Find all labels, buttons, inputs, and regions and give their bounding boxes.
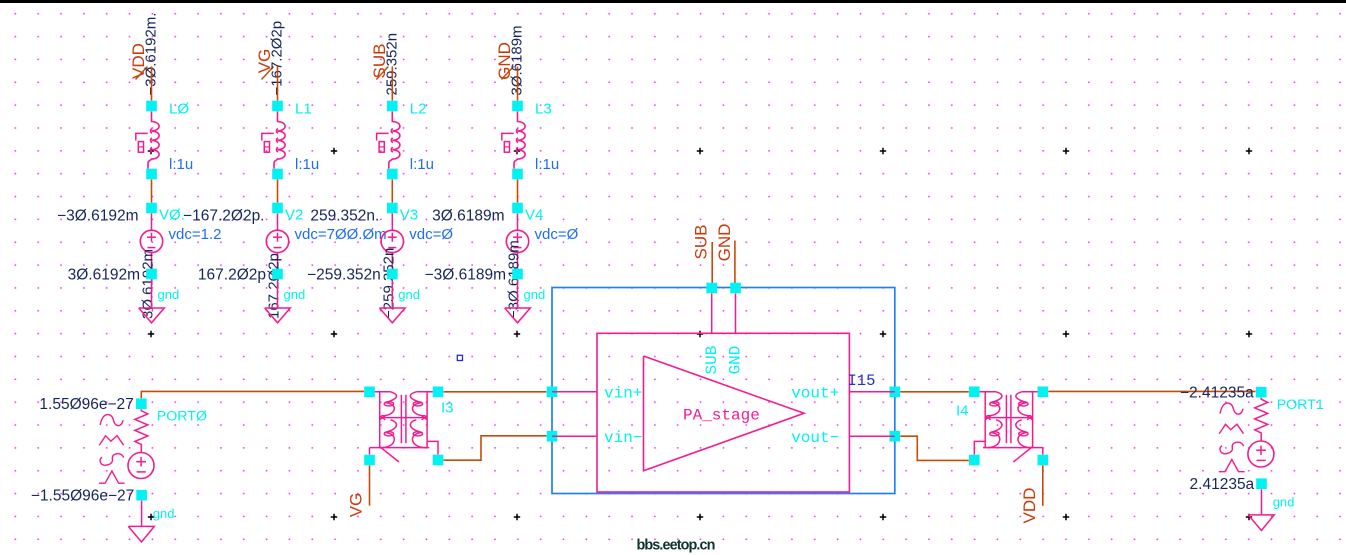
svg-text:gnd: gnd [1273, 495, 1295, 510]
inductor L3 value l:1u [535, 156, 559, 173]
svg-text:VDD: VDD [1020, 488, 1039, 524]
watermark bbs.eetop.cn [637, 538, 715, 554]
svg-text:vout+: vout+ [791, 385, 839, 403]
pin square SUB (box top) [706, 283, 717, 294]
net label SUB [370, 44, 389, 80]
pin square L1 top [272, 101, 283, 112]
svg-text:vdc=Ø: vdc=Ø [535, 226, 579, 243]
svg-text:vout−: vout− [791, 429, 839, 447]
net label GND [495, 42, 514, 80]
wire V2 to gnd [277, 280, 279, 309]
pin square I3 top-left [364, 387, 375, 398]
pin square V2 minus [272, 269, 283, 280]
inductor L3 body symbol [502, 133, 514, 152]
svg-text:l:1u: l:1u [535, 156, 559, 173]
svg-text:I4: I4 [956, 403, 969, 420]
wire I3 to vin- pin [444, 436, 547, 460]
current annotation 3Ø.6189m (rotated, net GND) [509, 25, 526, 95]
value annotation 3Ø.6189m [432, 208, 504, 225]
pin square V4 plus [512, 203, 523, 214]
wire GND [734, 241, 736, 284]
current annotation 167.2Ø2p (rotated, wire) [266, 253, 283, 319]
pin label vout- [791, 429, 839, 447]
pin square V0 plus [146, 203, 157, 214]
source V4 property vdc=Ø [535, 226, 579, 243]
value annotation −3Ø.6192m [57, 208, 138, 225]
ground symbol (branch VDD) [139, 308, 165, 323]
net label VDD (bottom) [1020, 488, 1039, 524]
svg-text:SUB: SUB [692, 225, 711, 260]
svg-text:l:1u: l:1u [410, 156, 434, 173]
pin square I3 bottom-left [364, 455, 375, 466]
waveform glyphs (PORTØ) [99, 415, 125, 484]
svg-text:V2: V2 [285, 207, 303, 224]
transformer I3 symbol [370, 392, 439, 462]
source V2 label [285, 207, 303, 224]
svg-text:−3Ø.6192m: −3Ø.6192m [57, 208, 138, 225]
value annotation 1.55Ø96e−27 (PORTØ) [39, 396, 133, 413]
value annotation −1.55Ø96e−27 (PORTØ) [31, 488, 134, 505]
op-amp triangle [644, 356, 805, 471]
ground symbol (PORT1) [1248, 515, 1274, 531]
voltage source V2 symbol [266, 214, 288, 269]
pin square V3 minus [387, 269, 398, 280]
svg-text:167.2Ø2p: 167.2Ø2p [266, 253, 283, 319]
inductor L0 coil [148, 112, 159, 169]
svg-text:3Ø.6189m: 3Ø.6189m [432, 208, 504, 225]
pin square V2 plus [272, 203, 283, 214]
svg-text:LØ: LØ [169, 101, 189, 118]
pin square V3 plus [387, 203, 398, 214]
pin square L0 bottom [146, 169, 157, 180]
pin square PORTØ top [136, 398, 147, 409]
current annotation −3Ø.6189m (rotated, wire) [506, 240, 523, 319]
pin label GND (rotated cyan) [726, 346, 744, 375]
pin square I4 bottom-left [969, 455, 980, 466]
source V3 property vdc=Ø [409, 226, 453, 243]
pin stub SUB [711, 294, 713, 334]
svg-text:I15: I15 [848, 372, 876, 390]
pin square GND (box top) [730, 283, 741, 294]
gnd label (branch GND) [524, 287, 546, 302]
ground symbol (branch SUB) [380, 308, 406, 323]
wire SUB to L2 top [391, 67, 393, 101]
net label VG [255, 49, 274, 80]
pin square vout- [890, 431, 901, 442]
svg-text:VG: VG [347, 493, 366, 518]
net label VG [347, 493, 366, 518]
wire vout- pin to I4 [900, 436, 969, 460]
svg-text:vdc=Ø: vdc=Ø [409, 226, 453, 243]
waveform glyphs (PORT1) [1219, 403, 1245, 472]
source VØ. label [159, 207, 185, 224]
svg-text:gnd: gnd [153, 506, 175, 521]
svg-text:−167.2Ø2p.: −167.2Ø2p. [183, 208, 264, 225]
pin square L0 top [146, 101, 157, 112]
pin square I4 top-right [1038, 387, 1049, 398]
ground symbol (branch GND) [505, 308, 531, 323]
wire V4 to gnd [517, 280, 519, 309]
gnd label (branch VG) [284, 287, 306, 302]
wire PORT1 to gnd [1261, 489, 1263, 515]
sine source circle (PORT1) [1248, 441, 1274, 467]
svg-text:167.2Ø2p: 167.2Ø2p [198, 267, 266, 284]
svg-text:SUB: SUB [703, 346, 721, 375]
svg-text:gnd: gnd [524, 287, 546, 302]
instance label I4 [956, 403, 969, 420]
pin square vout+ [890, 387, 901, 398]
pin square vin- [547, 431, 558, 442]
inductor L3 label [535, 101, 552, 118]
pin stub vin+ [552, 391, 597, 393]
current annotation 259.352n (rotated, net SUB) [383, 33, 400, 96]
svg-text:L2: L2 [410, 101, 427, 118]
pin label vin- [604, 429, 642, 447]
wire PORT0 to I3 (net in+) [141, 391, 364, 398]
svg-text:gnd: gnd [158, 287, 180, 302]
instance label PORTØ [157, 409, 207, 425]
svg-text:vin−: vin− [604, 429, 642, 447]
svg-text:vin+: vin+ [604, 385, 642, 403]
gnd label (PORTØ) [153, 506, 175, 521]
wire VDD to L0 top [151, 67, 153, 101]
svg-text:PA_stage: PA_stage [683, 407, 760, 425]
svg-text:PORT1: PORT1 [1277, 397, 1324, 413]
net label VDD [129, 43, 148, 79]
svg-text:−2.41235a: −2.41235a [1180, 385, 1254, 402]
pin square L3 bottom [512, 169, 523, 180]
wire vout+ pin to I4 [900, 391, 969, 393]
source V2 property vdc=7ØØ.Øm [295, 226, 387, 243]
svg-text:259.352n.: 259.352n. [310, 208, 379, 225]
pin stub vout- [849, 435, 894, 437]
inductor L0 body symbol [136, 133, 148, 152]
ground symbol (PORTØ) [128, 526, 154, 542]
current annotation −167.2Ø2p (rotated, net VG) [269, 21, 286, 96]
wire V3 to gnd [391, 280, 393, 309]
pin square L2 top [387, 101, 398, 112]
svg-text:I3: I3 [441, 400, 454, 417]
pin square V0 minus [146, 269, 157, 280]
pin square PORT1 top [1256, 387, 1267, 398]
voltage source V4 symbol [506, 214, 528, 269]
origin marker (small blue square) [457, 355, 462, 360]
svg-text:−259.352n: −259.352n [307, 267, 381, 284]
svg-text:l:1u: l:1u [169, 156, 193, 173]
pin square L1 bottom [272, 169, 283, 180]
pin square L3 top [512, 101, 523, 112]
wire I3 to vin+ pin [444, 391, 547, 393]
ground symbol (branch VG) [265, 308, 291, 323]
pin square V4 minus [512, 269, 523, 280]
inductor L2 coil [389, 112, 400, 169]
wire I3 to VG [369, 466, 371, 506]
inductor L1 value l:1u [295, 156, 319, 173]
sine source circle (PORTØ) [128, 453, 154, 479]
value annotation 3Ø.6192m [68, 267, 140, 284]
svg-text:VØ.: VØ. [159, 207, 185, 224]
resistor zigzag (PORT1) [1255, 398, 1268, 441]
svg-text:gnd: gnd [398, 287, 420, 302]
inductor L1 body symbol [262, 133, 274, 152]
svg-text:1.55Ø96e−27: 1.55Ø96e−27 [39, 396, 133, 413]
value annotation −259.352n [307, 267, 381, 284]
transformer I4 symbol [974, 392, 1043, 462]
instance label I3 [441, 400, 454, 417]
inductor L2 label [410, 101, 427, 118]
current annotation 3Ø.6192m (rotated, wire) [140, 249, 157, 319]
wire I4 to VDD [1042, 466, 1044, 506]
resistor zigzag (PORTØ) [135, 409, 148, 452]
gnd label (PORT1) [1273, 495, 1295, 510]
value annotation −2.41235a (PORT1) [1180, 385, 1254, 402]
svg-text:L3: L3 [535, 101, 552, 118]
wire L3 to V source [517, 180, 519, 203]
pin square vin+ [547, 387, 558, 398]
gnd label (branch SUB) [398, 287, 420, 302]
svg-text:l:1u: l:1u [295, 156, 319, 173]
svg-text:3Ø.6192m: 3Ø.6192m [68, 267, 140, 284]
voltage source V3 symbol [381, 214, 403, 269]
value annotation 2.41235a (PORT1) [1190, 476, 1255, 493]
pin label SUB (rotated cyan) [703, 346, 721, 375]
pin stub vout+ [849, 391, 894, 393]
source V3 label [400, 207, 418, 224]
value annotation −167.2Ø2p. [183, 208, 264, 225]
label PA_stage [683, 407, 760, 425]
wire PORTØ to gnd [141, 501, 143, 527]
net label GND (top of PA box) [715, 224, 734, 262]
svg-text:2.41235a: 2.41235a [1190, 476, 1255, 493]
value annotation 259.352n. [310, 208, 379, 225]
wire V0 to gnd [151, 280, 153, 309]
svg-text:−1.55Ø96e−27: −1.55Ø96e−27 [31, 488, 134, 505]
current annotation −259.352n (rotated, wire) [380, 248, 397, 319]
PA_stage symbol body [597, 333, 849, 492]
value annotation −3Ø.6189m [425, 267, 506, 284]
pin square I4 top-left [969, 387, 980, 398]
pin square PORT1 bottom [1256, 478, 1267, 489]
wire L2 to V source [391, 180, 393, 203]
svg-text:GND: GND [715, 224, 734, 262]
pin stub vin- [552, 435, 597, 437]
wire L1 to V source [277, 180, 279, 203]
pin stub GND [735, 294, 737, 334]
pin label vout+ [791, 385, 839, 403]
gnd label (branch VDD) [158, 287, 180, 302]
svg-text:−3Ø.6189m: −3Ø.6189m [506, 240, 523, 319]
inductor L1 coil [274, 112, 285, 169]
svg-text:GND: GND [726, 346, 744, 375]
source V4 label [525, 207, 543, 224]
instance I15 outer bounding box [552, 288, 895, 494]
svg-text:V3: V3 [400, 207, 418, 224]
source V0 property vdc=1.2 [169, 226, 222, 243]
inductor L2 value l:1u [410, 156, 434, 173]
svg-text:bbs.eetop.cn: bbs.eetop.cn [637, 538, 715, 554]
wire L0 to V source [151, 180, 153, 203]
svg-text:PORTØ: PORTØ [157, 409, 207, 425]
inductor LØ label [169, 101, 189, 118]
pin square I3 top-right [433, 387, 444, 398]
inductor L1 label [295, 101, 312, 118]
wire VG to L1 top [277, 67, 279, 101]
svg-text:vdc=7ØØ.Øm: vdc=7ØØ.Øm [295, 226, 387, 243]
pin square PORTØ bottom [136, 490, 147, 501]
pin square L2 bottom [387, 169, 398, 180]
svg-text:L1: L1 [295, 101, 312, 118]
pin label vin+ [604, 385, 642, 403]
instance label I15 [848, 372, 876, 390]
svg-text:V4: V4 [525, 207, 543, 224]
wire GND to L3 top [517, 67, 519, 101]
net label SUB (top of PA box) [692, 225, 711, 260]
voltage source V0 symbol [140, 214, 162, 269]
svg-text:vdc=1.2: vdc=1.2 [169, 226, 222, 243]
value annotation 167.2Ø2p [198, 267, 266, 284]
svg-text:gnd: gnd [284, 287, 306, 302]
pin square I4 bottom-right [1038, 455, 1049, 466]
inductor L2 body symbol [377, 133, 389, 152]
inductor L0 value l:1u [169, 156, 193, 173]
wire I4 to PORT1 (net out+) [1048, 390, 1255, 392]
svg-text:−3Ø.6189m: −3Ø.6189m [425, 267, 506, 284]
wire SUB [711, 242, 713, 283]
instance label PORT1 [1277, 397, 1324, 413]
current annotation −3Ø.6192m. (rotated, net VDD) [143, 13, 160, 96]
pin square I3 bottom-right [433, 455, 444, 466]
inductor L3 coil [514, 112, 525, 169]
